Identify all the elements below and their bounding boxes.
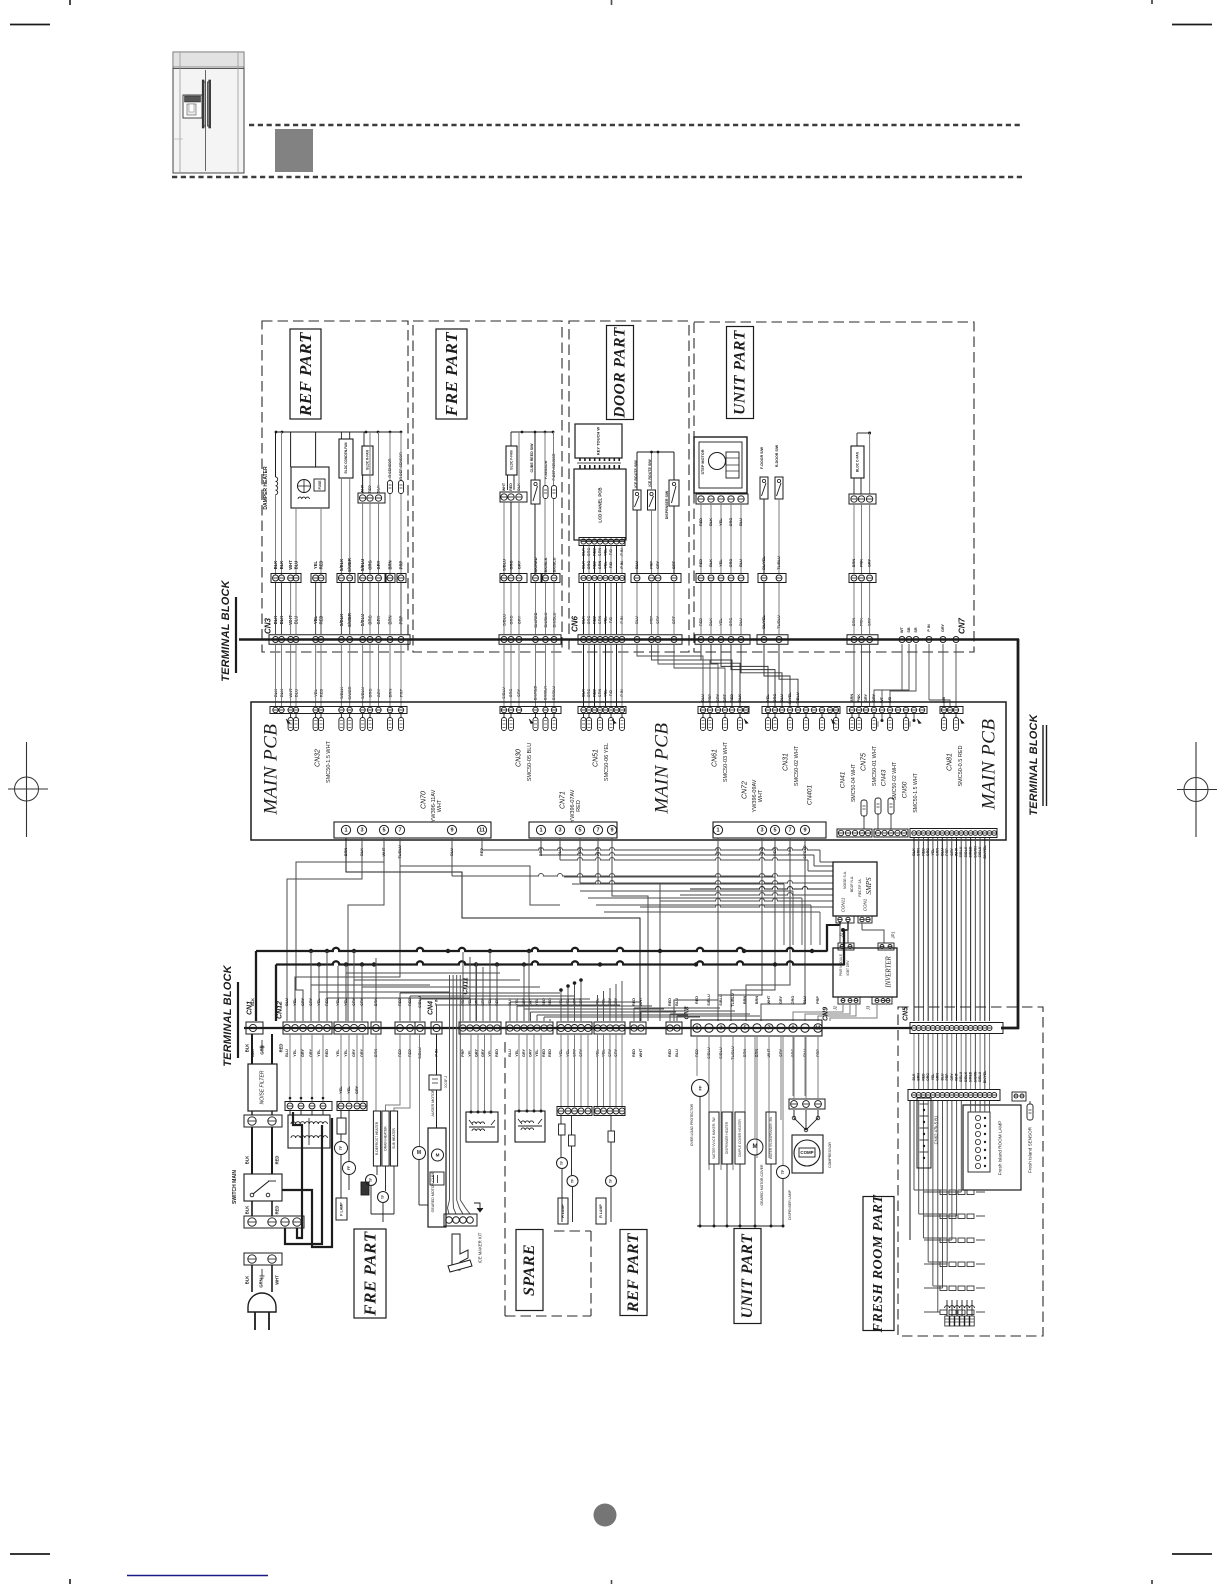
svg-text:BLK: BLK	[738, 694, 742, 702]
terminal row 1 cluster UNIT left	[695, 635, 750, 645]
svg-text:M: M	[417, 1150, 421, 1156]
R LAMP label box left	[558, 1198, 568, 1224]
svg-text:WHT: WHT	[767, 995, 771, 1004]
svg-text:BRN: BRN	[755, 996, 759, 1004]
compressor terminal pins	[789, 1036, 825, 1109]
svg-text:RED: RED	[279, 1044, 284, 1053]
svg-text:SPARE: SPARE	[521, 1244, 538, 1296]
svg-text:GRY: GRY	[522, 1048, 526, 1057]
svg-text:S/BLU: S/BLU	[360, 559, 365, 572]
ICE ROUTE switch R	[648, 452, 656, 574]
FRESH ROOM dashed box	[898, 1007, 1043, 1336]
refrigerator icon	[173, 52, 244, 173]
svg-text:RED: RED	[509, 483, 513, 491]
Vcc marks CN75	[876, 714, 916, 727]
REF PART section box	[262, 321, 408, 652]
FRE PART bottom label	[354, 1229, 386, 1318]
svg-text:F/B: F/B	[609, 562, 613, 568]
door board mating pins	[577, 463, 621, 469]
svg-text:FRE PART: FRE PART	[442, 332, 461, 418]
maze wire A7	[296, 850, 384, 1021]
svg-text:FRESH ROOM PART: FRESH ROOM PART	[871, 1194, 886, 1334]
svg-text:RED: RED	[275, 1156, 280, 1165]
REF lamp fuse 2	[569, 1116, 576, 1175]
connector CN43	[874, 761, 908, 837]
terminal row 2 connector CN5	[910, 1023, 1003, 1034]
svg-text:WHT: WHT	[954, 1072, 958, 1081]
svg-text:3: 3	[760, 827, 763, 833]
FRE mid connector rows	[500, 574, 560, 583]
svg-text:OVER-LOAD PROTECTOR: OVER-LOAD PROTECTOR	[690, 1103, 694, 1146]
svg-text:UNIT PART: UNIT PART	[739, 1234, 756, 1319]
REF lamp thermal fuse TF1	[557, 1158, 568, 1223]
pin1 arrows top rows	[286, 719, 964, 724]
svg-text:F-DOOR S/W: F-DOOR S/W	[760, 446, 764, 469]
svg-text:1: 1	[539, 827, 542, 833]
svg-text:DISPENSER HEATER: DISPENSER HEATER	[725, 1121, 729, 1154]
BLDC R-FAN motor	[358, 432, 385, 575]
REF lamp group connector rows	[557, 1034, 625, 1116]
freezer lamp branch	[335, 1034, 368, 1220]
svg-text:WHT: WHT	[758, 789, 764, 802]
svg-text:CN72: CN72	[742, 781, 749, 799]
svg-text:BK/BLK: BK/BLK	[543, 557, 548, 572]
svg-text:CN5: CN5	[903, 1007, 910, 1021]
BLDC condenser-fan motor	[339, 432, 353, 575]
F-SENSOR	[543, 432, 548, 575]
key touch assembly	[575, 424, 622, 461]
terminal row 1 cluster door switches	[757, 635, 788, 645]
CN9 load wires down	[697, 1036, 818, 1170]
svg-text:7: 7	[788, 827, 791, 833]
svg-text:5: 5	[382, 827, 385, 833]
connector CN50	[902, 772, 998, 837]
svg-text:BLK: BLK	[279, 561, 284, 570]
connector CN32	[270, 707, 407, 783]
svg-text:TF: TF	[369, 1178, 373, 1182]
svg-text:R-DEFROST HEATER: R-DEFROST HEATER	[375, 1121, 379, 1155]
AC drop wires to row 2	[311, 951, 529, 1021]
svg-text:BLU: BLU	[675, 998, 679, 1006]
svg-text:3: 3	[719, 1025, 722, 1031]
R-SENSOR	[388, 432, 393, 575]
terminal row 2 cluster YEL 2	[594, 1022, 625, 1034]
ice maker kit bracket icon	[448, 1232, 483, 1272]
svg-text:7: 7	[767, 1025, 770, 1031]
svg-text:5: 5	[743, 1025, 746, 1031]
svg-text:SB: SB	[907, 627, 911, 633]
maze wire A2	[287, 838, 362, 1021]
REF mid connector rows	[271, 574, 406, 583]
maze wire B4	[598, 838, 660, 1021]
geared motor-F branch	[429, 1034, 448, 1128]
svg-text:CON1: CON1	[863, 898, 868, 911]
noise filter NF1	[248, 1064, 277, 1111]
svg-text:GRY: GRY	[355, 1085, 359, 1094]
door heater transformer T1	[285, 1034, 332, 1148]
svg-text:M: M	[753, 1144, 758, 1150]
dimple cover heater R2	[735, 1112, 745, 1226]
FRE PART label	[436, 329, 467, 419]
defrost heater group	[361, 1034, 410, 1222]
terminal row 2 cluster BLU	[506, 1022, 553, 1034]
svg-text:YEL: YEL	[317, 1049, 321, 1057]
UNIT PART section box	[694, 322, 974, 652]
svg-text:J1: J1	[839, 933, 844, 938]
svg-text:BLDC CONDEN-FAN: BLDC CONDEN-FAN	[344, 442, 348, 474]
door heater coil box B	[515, 1034, 545, 1142]
svg-text:PRP: PRP	[650, 561, 654, 569]
svg-text:SMC50-1.5 WHT: SMC50-1.5 WHT	[326, 740, 332, 783]
svg-text:GRY: GRY	[301, 997, 305, 1006]
svg-text:TF: TF	[571, 1179, 575, 1183]
svg-text:REF PART: REF PART	[625, 1232, 642, 1313]
power cord connector	[244, 1253, 282, 1265]
CN71 CN72 wire labels	[539, 845, 807, 859]
svg-text:CN70: CN70	[421, 791, 428, 809]
F-DEF-SENSOR	[552, 432, 557, 575]
svg-text:ORG: ORG	[729, 559, 733, 568]
svg-text:DISPENSER LAMP: DISPENSER LAMP	[788, 1189, 792, 1220]
svg-text:PNK: PNK	[857, 694, 861, 702]
svg-text:CN81: CN81	[947, 753, 954, 771]
svg-text:TERMINAL BLOCK: TERMINAL BLOCK	[220, 579, 232, 681]
maze wire B5	[612, 838, 648, 1021]
terminal to PCB straight wires left	[276, 644, 726, 707]
svg-text:RED: RED	[593, 561, 597, 569]
svg-text:RECTIF 2A: RECTIF 2A	[858, 879, 862, 897]
svg-text:BLK: BLK	[245, 1044, 250, 1053]
svg-text:TERMINAL BLOCK: TERMINAL BLOCK	[222, 964, 234, 1066]
maze wire A1	[346, 838, 640, 1021]
maze wire B2	[560, 838, 833, 871]
svg-text:S/BLU: S/BLU	[959, 1071, 963, 1082]
svg-text:ICE MAKER KIT: ICE MAKER KIT	[478, 1232, 483, 1263]
BLDC C-FAN motor	[849, 432, 876, 635]
overload protector PTC1	[690, 1080, 709, 1227]
ICE ROUTE switch L	[633, 452, 641, 574]
FRE PART section box	[413, 321, 562, 652]
bold loop wires switch to transformer	[282, 1112, 332, 1247]
svg-text:9: 9	[791, 1025, 794, 1031]
terminal row 2 single SBLU	[415, 1022, 425, 1034]
svg-text:STEP MOTOR: STEP MOTOR	[701, 449, 705, 474]
svg-text:RED: RED	[632, 1049, 636, 1057]
terminal row 1 cluster c-fan	[847, 635, 878, 645]
CN1 thick drop wires	[245, 1034, 284, 1064]
svg-text:S/RED: S/RED	[969, 1071, 973, 1082]
svg-text:SMC50-1.5 WHT: SMC50-1.5 WHT	[913, 772, 919, 812]
REF PART label	[290, 329, 321, 419]
svg-text:SMC50-06 YEL: SMC50-06 YEL	[604, 743, 610, 781]
svg-text:GRY: GRY	[941, 623, 945, 632]
corner crop line top-right	[1172, 24, 1212, 26]
svg-text:TF: TF	[381, 1195, 385, 1199]
connector CN31	[762, 707, 840, 787]
inverter module INV1	[833, 931, 898, 1011]
row 2 jog junction dots	[559, 988, 563, 992]
svg-text:M: M	[436, 1153, 440, 1158]
svg-text:YEL: YEL	[515, 1049, 519, 1057]
svg-text:CN6: CN6	[571, 615, 580, 632]
LCD panel connector	[579, 538, 625, 546]
svg-text:YEL: YEL	[719, 518, 723, 526]
svg-text:WHT: WHT	[639, 1048, 643, 1057]
fresh island room lamp	[963, 1105, 1021, 1190]
UNIT mid connector row door switches	[758, 574, 786, 583]
svg-text:BLK: BLK	[912, 1073, 916, 1081]
wire labels above PCB row	[273, 623, 946, 703]
terminal row 1 cluster FRE	[499, 635, 561, 645]
svg-text:9: 9	[803, 827, 806, 833]
svg-text:YEL: YEL	[293, 1049, 297, 1057]
svg-text:INVERTER: INVERTER	[886, 955, 893, 988]
svg-text:FUSE: FUSE	[318, 480, 322, 490]
svg-text:FF: FF	[698, 1085, 703, 1090]
terminal block 1 bus line	[239, 638, 1019, 641]
svg-text:ORG: ORG	[368, 560, 373, 570]
FRE mid wire labels	[502, 557, 557, 634]
svg-text:7: 7	[398, 827, 401, 833]
FRE PART top bus wire	[511, 431, 553, 433]
svg-text:1: 1	[344, 827, 347, 833]
svg-text:S/BLU: S/BLU	[502, 559, 507, 571]
svg-text:S/BLK: S/BLK	[339, 559, 344, 572]
svg-text:RED: RED	[495, 1049, 499, 1057]
connector CN70	[334, 789, 491, 838]
svg-text:CN71: CN71	[560, 791, 567, 809]
svg-text:CN3: CN3	[264, 617, 273, 634]
R LAMP label box right	[596, 1198, 606, 1224]
SMPS to inverter wires	[840, 923, 884, 943]
svg-text:RED: RED	[921, 1073, 925, 1081]
svg-text:GRN: GRN	[598, 561, 602, 570]
svg-text:TF: TF	[609, 1179, 613, 1183]
svg-text:GRY: GRY	[872, 693, 876, 702]
BLDC F-FAN motor	[500, 432, 527, 575]
svg-text:ORG: ORG	[791, 996, 795, 1005]
svg-text:BK/YEL: BK/YEL	[983, 1071, 987, 1083]
svg-text:TF: TF	[560, 1161, 564, 1165]
row 2 upper horizontal jogs	[564, 877, 820, 945]
DOOR PART label	[607, 326, 634, 420]
svg-text:TERMINAL BLOCK: TERMINAL BLOCK	[1028, 713, 1040, 815]
fresh room resistor ladders	[924, 1190, 985, 1315]
fresh island sensor	[1012, 1092, 1033, 1173]
svg-text:0003F-J: 0003F-J	[444, 1075, 448, 1088]
maze wire to SMPS lowest	[640, 905, 833, 907]
svg-text:BLK: BLK	[245, 1206, 250, 1215]
svg-text:WHT: WHT	[288, 560, 293, 570]
svg-text:BRN: BRN	[850, 694, 854, 702]
terminal row 2 pins RED WHT	[630, 1022, 646, 1034]
svg-text:CN43: CN43	[881, 769, 888, 786]
terminal row 2 cluster fre lamps	[334, 1022, 368, 1034]
svg-text:Fresh Island ROOM LAMP: Fresh Island ROOM LAMP	[998, 1121, 1003, 1176]
ice maker harness wires	[448, 975, 471, 1214]
svg-text:RED: RED	[275, 1206, 280, 1215]
noise filter connector	[244, 1115, 282, 1127]
svg-text:BLDC C-FAN: BLDC C-FAN	[856, 451, 860, 472]
svg-text:WATER VV-DISPENSER: 3W: WATER VV-DISPENSER: 3W	[769, 1117, 773, 1159]
F-DOOR switch	[760, 446, 768, 634]
REF PART top bus wire	[276, 431, 401, 433]
AC live bus thick wire	[256, 922, 840, 1021]
geared motor cube M1	[428, 1128, 446, 1227]
svg-text:JP1: JP1	[891, 931, 896, 939]
svg-text:SUB HEATER: SUB HEATER	[392, 1127, 396, 1148]
svg-text:YEL: YEL	[339, 1086, 343, 1094]
R-DEF-SENSOR	[399, 432, 404, 575]
corner crop line bottom-left	[10, 1553, 50, 1555]
maze long wire right to SMPS low	[660, 899, 833, 902]
svg-text:DISPENSER S/W: DISPENSER S/W	[665, 490, 669, 519]
svg-text:CN50: CN50	[902, 781, 909, 798]
svg-text:9: 9	[450, 827, 453, 833]
svg-text:SMC50-03 WHT: SMC50-03 WHT	[723, 741, 729, 782]
svg-text:GRY: GRY	[376, 560, 381, 569]
svg-text:TL/BLU: TL/BLU	[731, 993, 735, 1007]
svg-text:P IN: P IN	[927, 624, 931, 632]
svg-text:BLU: BLU	[675, 1049, 679, 1057]
svg-text:BLU: BLU	[294, 561, 299, 570]
svg-text:SMC50-01 WHT: SMC50-01 WHT	[872, 745, 878, 786]
maze wire A3	[348, 838, 384, 1021]
svg-text:PRP: PRP	[399, 560, 404, 569]
fresh room left rail	[910, 1098, 931, 1240]
svg-text:YEL: YEL	[347, 1086, 351, 1094]
svg-text:BLU: BLU	[803, 996, 807, 1004]
maze long wire right to SMPS upper	[690, 887, 833, 890]
ice maker connector	[444, 1203, 483, 1226]
svg-text:RED: RED	[668, 998, 672, 1006]
svg-text:SMC50-02 WHT: SMC50-02 WHT	[794, 745, 800, 786]
svg-text:GRY: GRY	[529, 1048, 533, 1057]
AC neutral bus thick wire	[276, 922, 848, 1021]
connector CN71	[529, 789, 617, 838]
terminal to PCB stepped wires right fan	[701, 644, 956, 707]
svg-text:YEL: YEL	[293, 998, 297, 1006]
terminal row 1 cluster CN6	[578, 635, 682, 645]
svg-text:CN75: CN75	[861, 753, 868, 771]
footer blue rule	[127, 1575, 268, 1577]
power cord wires	[245, 1265, 280, 1292]
svg-text:SMPS: SMPS	[865, 877, 873, 895]
svg-text:RED: RED	[668, 1049, 672, 1057]
svg-text:NOISE S.A.: NOISE S.A.	[843, 871, 847, 889]
svg-text:PNK: PNK	[860, 559, 864, 567]
svg-text:CN61: CN61	[712, 749, 719, 767]
svg-text:S/BLK: S/BLK	[964, 1071, 968, 1082]
LCD panel PCB	[574, 469, 626, 540]
terminal row 1 cluster CN3	[269, 635, 410, 645]
svg-text:J3: J3	[866, 1005, 871, 1011]
svg-text:YEL: YEL	[313, 560, 318, 569]
terminal row 2 connector CN9	[691, 1020, 822, 1036]
connector CN51	[578, 707, 626, 782]
svg-text:11: 11	[815, 1025, 821, 1031]
svg-text:S/GRN: S/GRN	[973, 1071, 977, 1082]
connector CN72	[713, 779, 826, 838]
svg-text:BL/YEL: BL/YEL	[762, 556, 766, 570]
DOOR mid wire labels	[582, 560, 677, 634]
REF wires mid to terminal	[276, 583, 402, 634]
svg-text:NOISE FILTER: NOISE FILTER	[260, 1070, 266, 1104]
svg-text:BLK: BLK	[709, 559, 713, 567]
svg-text:R LAMP: R LAMP	[599, 1204, 603, 1218]
svg-text:3: 3	[558, 827, 561, 833]
terminal block 2 right thick link	[1001, 1027, 1019, 1030]
fresh room CN61 bundle	[914, 1034, 990, 1089]
CN5 wire bundle	[914, 838, 990, 1021]
svg-text:RED: RED	[699, 518, 703, 526]
svg-text:DIMPLE COVER HEATER: DIMPLE COVER HEATER	[738, 1118, 742, 1156]
svg-text:RED: RED	[730, 694, 734, 702]
svg-text:BLU: BLU	[508, 1049, 512, 1057]
compressor COMP1	[792, 1135, 832, 1173]
connector CN61 fresh	[908, 1090, 1000, 1101]
svg-text:7: 7	[596, 827, 599, 833]
svg-text:ORG: ORG	[926, 1073, 930, 1081]
svg-text:GRY: GRY	[868, 558, 872, 567]
svg-text:3: 3	[360, 827, 363, 833]
terminal row 2 single BRN	[371, 1022, 381, 1034]
door wires LCD to mid row	[584, 546, 623, 575]
svg-text:SMC50-0.5 RED: SMC50-0.5 RED	[958, 745, 964, 786]
svg-text:1: 1	[695, 1025, 698, 1031]
registration mark right	[1177, 742, 1217, 837]
svg-text:SMC50-02 WHT: SMC50-02 WHT	[892, 761, 898, 800]
svg-text:BLU: BLU	[940, 1073, 944, 1081]
svg-text:GRN: GRN	[259, 1278, 264, 1287]
svg-text:S/BLU: S/BLU	[978, 1071, 982, 1082]
svg-text:R-DOOR S/W: R-DOOR S/W	[775, 444, 779, 467]
svg-text:BLK: BLK	[245, 1156, 250, 1165]
connector CN81	[940, 707, 964, 787]
door switch bus wire	[637, 451, 674, 453]
TERMINAL BLOCK label right	[1028, 713, 1047, 815]
header dashed rule upper	[249, 124, 1022, 126]
svg-text:CN41: CN41	[840, 771, 847, 788]
svg-text:BK/BLU: BK/BLU	[552, 557, 557, 572]
svg-text:SMC50-05 BLU: SMC50-05 BLU	[527, 743, 533, 782]
main switch SW1	[232, 1170, 282, 1204]
svg-text:BLK: BLK	[709, 518, 713, 526]
svg-text:BRT: BRT	[672, 560, 676, 568]
switch lower labels	[245, 1201, 280, 1216]
svg-text:BLU: BLU	[780, 694, 784, 702]
svg-text:BRN: BRN	[388, 560, 393, 569]
compressor delta connection	[792, 1110, 820, 1132]
svg-text:BLDC R-FAN: BLDC R-FAN	[366, 450, 370, 470]
SPARE label	[516, 1230, 543, 1311]
svg-text:UNIT PART: UNIT PART	[732, 330, 749, 415]
terminal block 2 bus line	[244, 1027, 912, 1029]
svg-text:BLU: BLU	[635, 561, 639, 569]
svg-text:BLK: BLK	[245, 1276, 250, 1285]
svg-text:CN32: CN32	[315, 749, 322, 767]
corner crop line bottom-right	[1172, 1553, 1212, 1555]
svg-text:COMPRESSOR: COMPRESSOR	[828, 1142, 832, 1168]
maze wire A6	[481, 838, 483, 850]
svg-text:RED: RED	[325, 1049, 329, 1057]
page number dot	[594, 1504, 617, 1527]
svg-text:GEARED MOTOR-COVER: GEARED MOTOR-COVER	[760, 1164, 764, 1206]
dispenser lamp L1	[777, 1036, 793, 1226]
svg-text:CN4: CN4	[428, 1001, 435, 1015]
step motor wires	[699, 504, 743, 634]
CN50 wire labels	[912, 845, 987, 859]
